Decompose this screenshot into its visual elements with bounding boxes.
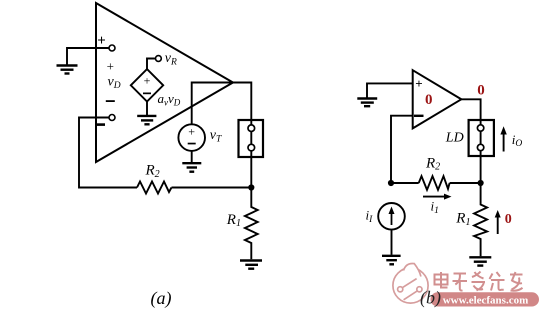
resistor R1 (b) <box>474 183 487 256</box>
wire (b) inverting input down to node A <box>391 116 413 183</box>
wire (a) diamond top to vR terminal <box>147 59 155 70</box>
resistor R2 (b) <box>419 176 450 190</box>
wire (b) + input to ground <box>367 83 413 97</box>
svg-text:R2: R2 <box>425 155 440 172</box>
svg-text:(a): (a) <box>151 288 172 309</box>
label - (vT source) <box>188 143 196 145</box>
svg-text:+: + <box>188 124 195 138</box>
wire (b) R2 to node B <box>450 182 481 184</box>
svg-text:R2: R2 <box>145 163 160 180</box>
ground (a, noninverting input) <box>57 66 78 74</box>
ground (b, + input) <box>357 99 377 107</box>
current source iI (b) <box>378 203 405 230</box>
wire (b) output to LD box <box>461 99 480 120</box>
svg-text:i1: i1 <box>431 199 439 217</box>
resistor R2 (a) <box>137 182 172 194</box>
label - (a input terminal) <box>96 123 106 126</box>
svg-text:vD: vD <box>108 75 121 92</box>
ground (a, below vT) <box>191 151 193 162</box>
svg-text:avvD: avvD <box>158 91 181 107</box>
ground (b, below iI) <box>382 256 401 264</box>
arrow i1 (b) <box>423 196 447 198</box>
svg-text:R1: R1 <box>226 212 241 229</box>
svg-text:LD: LD <box>445 131 464 146</box>
wire (a) through load box down to node <box>250 120 252 188</box>
svg-text:iO: iO <box>512 132 523 149</box>
svg-text:vR: vR <box>165 51 177 68</box>
arrow iO (b) <box>503 134 505 152</box>
svg-text:+: + <box>97 33 106 49</box>
wire (a) inverting input feedback to R2 <box>79 118 137 188</box>
op-amp U2 (circuit b, small triangle) <box>413 70 462 128</box>
load box LD (b) <box>469 120 494 156</box>
terminal circle vR <box>156 56 162 62</box>
svg-text:+: + <box>144 74 151 88</box>
svg-text:0: 0 <box>425 92 433 108</box>
watermark logo circle <box>393 263 428 303</box>
wire (b) source bottom to ground <box>391 230 393 255</box>
ground (a, below diamond) <box>146 102 148 116</box>
independent source vT (circle a) <box>178 124 205 151</box>
svg-text:0: 0 <box>505 212 512 227</box>
watermark banner www.elecfans.com <box>431 292 540 306</box>
svg-text:www.elecfans.com: www.elecfans.com <box>443 294 529 306</box>
label - (a, vD minus) <box>106 100 115 102</box>
watermark text 电子发烧友 <box>435 272 523 291</box>
arrow 0 current (b, beside R1) <box>497 215 499 235</box>
svg-text:0: 0 <box>477 83 485 99</box>
ground (a, below R1) <box>240 261 262 269</box>
label - (diamond) <box>143 93 151 95</box>
svg-text:R1: R1 <box>455 211 470 228</box>
label - (b op-amp) <box>414 115 424 117</box>
svg-text:vT: vT <box>210 128 222 145</box>
svg-text:iI: iI <box>366 208 374 225</box>
wire (b) through LD box down to node B <box>480 120 482 183</box>
LD terminal circles <box>477 125 483 131</box>
resistor R1 (a) <box>245 188 258 260</box>
terminal circle (a, - input) <box>109 115 115 121</box>
node junction (a) <box>248 184 254 190</box>
node junction B (b) <box>478 180 484 186</box>
op-amp U1 (circuit a, large triangle) <box>96 3 233 162</box>
load box terminal circles (a) <box>248 125 255 132</box>
ground (b, below R1) <box>469 257 491 265</box>
load box (a) <box>239 120 264 157</box>
terminal circle (a, + input) <box>109 45 115 51</box>
wire (b) node A to R2 <box>391 182 419 184</box>
wire (a) R2 right to output node <box>172 187 252 189</box>
svg-text:(b): (b) <box>420 288 441 309</box>
svg-text:+: + <box>107 59 114 74</box>
wire (a) vT top up and right to output, down to load box <box>192 83 252 125</box>
wire (a) noninverting input to ground <box>67 48 109 65</box>
dependent source U1a (diamond a_v v_D) <box>131 69 163 101</box>
node junction A (b) <box>388 180 394 186</box>
svg-text:+: + <box>415 76 422 91</box>
